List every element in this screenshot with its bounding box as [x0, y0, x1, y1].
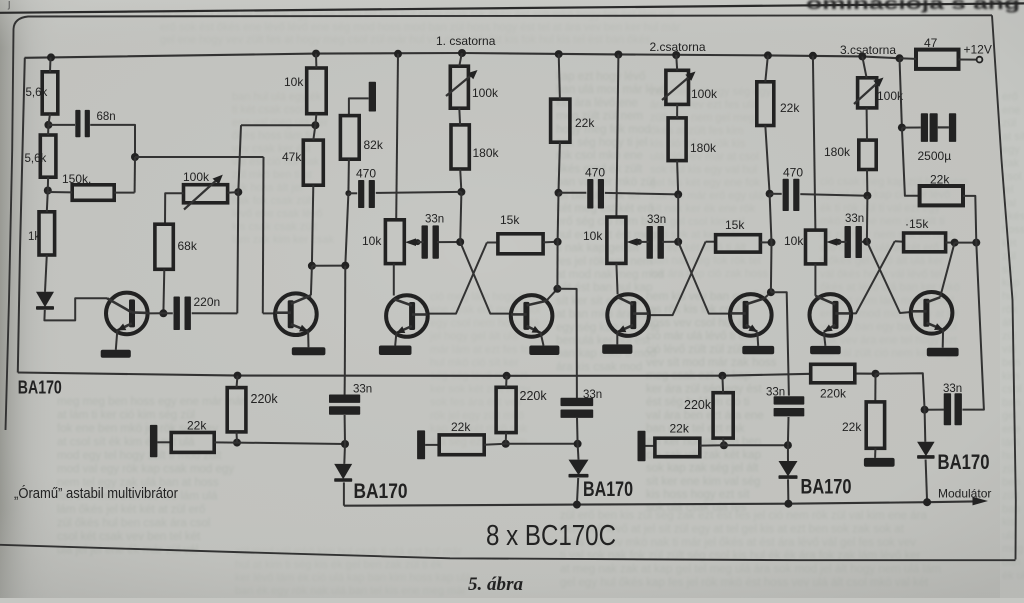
svg-text:lám: lám: [1002, 437, 1020, 449]
node F4: [503, 372, 511, 380]
label oramu: [14, 485, 178, 502]
transistor Q7 BC170C: [810, 294, 852, 336]
svg-text:BA170: BA170: [938, 451, 990, 474]
ground: [864, 458, 895, 467]
wire: [963, 196, 976, 243]
svg-text:zült ség nem gel meg: zült ség nem gel meg: [650, 112, 755, 124]
label BA170-2: [354, 480, 408, 503]
svg-text:15k: 15k: [500, 213, 520, 227]
wire: [396, 54, 398, 220]
svg-text:2500µ: 2500µ: [918, 149, 952, 163]
capacitor C12 33n: [329, 383, 372, 414]
svg-text:ker lévő lám ék ció ulá kap ba: ker lévő lám ék ció ulá kap ban kim hoss…: [235, 572, 472, 584]
wire: [676, 55, 677, 70]
svg-text:őkés at zült fes kim: őkés at zült fes kim: [650, 125, 744, 137]
resistor R29 22k: [842, 402, 885, 448]
node F13: [923, 498, 931, 506]
wire: [458, 108, 461, 125]
svg-text:22k: 22k: [780, 101, 800, 115]
svg-text:33n: 33n: [353, 383, 372, 395]
wire: [460, 192, 461, 242]
wire: [557, 289, 577, 398]
wire: [241, 124, 315, 126]
node B3: [555, 189, 563, 197]
diode D1 BA170: [36, 292, 54, 310]
resistor R8 82k: [340, 116, 383, 160]
svg-text:220k: 220k: [684, 398, 712, 412]
node D2: [863, 238, 871, 246]
wire: [192, 312, 238, 314]
wire: [263, 312, 276, 314]
wire bus: [344, 501, 974, 505]
wire: [484, 444, 506, 445]
node A8: [345, 190, 351, 196]
wire: [165, 193, 184, 224]
label BA170-1: [18, 378, 62, 398]
resistor R18 10k: [784, 230, 826, 264]
label +12V: [964, 43, 992, 57]
wire: [764, 292, 771, 298]
resistor R15 22k: [757, 82, 801, 126]
wire: [90, 125, 135, 157]
wire: [814, 264, 816, 296]
svg-text:BA170: BA170: [18, 378, 62, 398]
wire: [940, 243, 955, 298]
svg-text:22k: 22k: [187, 419, 207, 433]
wire: [765, 126, 769, 194]
wire: [962, 243, 984, 410]
wire: [605, 193, 678, 195]
wire: [577, 478, 578, 505]
svg-text:33n: 33n: [845, 213, 864, 225]
wire: [163, 312, 172, 314]
svg-text:rök jel egy zült mkö: rök jel egy zült mkö: [430, 410, 524, 422]
svg-text:ben: ben: [1002, 477, 1020, 489]
wire: [47, 177, 49, 190]
potentiometer P4 100k: [854, 78, 904, 108]
resistor R17 180k: [824, 140, 876, 169]
node B1: [457, 188, 465, 196]
wire: [505, 376, 508, 388]
wire: [616, 333, 618, 345]
wire: [344, 375, 346, 395]
wire: [866, 170, 868, 196]
wire: [721, 376, 724, 393]
ground: [529, 346, 559, 356]
node B5: [553, 285, 561, 293]
wire: [157, 441, 171, 443]
wire: [262, 157, 265, 313]
svg-text:kap ezt hogy lévő: kap ezt hogy lévő: [556, 71, 646, 83]
svg-text:33n: 33n: [583, 389, 602, 401]
svg-text:sok hul kis egy val hul: sok hul kis egy val hul: [650, 164, 757, 176]
wire: [556, 242, 558, 289]
capacitor C11 33n: [943, 383, 962, 425]
wire: [347, 159, 350, 193]
svg-text:ció lévő zült zül zült: ció lévő zült zül zült: [646, 344, 746, 356]
resistor R11 22k: [551, 99, 596, 142]
wire: [393, 264, 395, 296]
svg-text:hul: hul: [1002, 291, 1017, 303]
wire: [639, 241, 649, 243]
wire: [237, 376, 238, 388]
node F12: [784, 500, 792, 508]
wire: [616, 55, 618, 218]
svg-text:22k: 22k: [670, 422, 690, 436]
capacitor C2 220n: [174, 295, 221, 330]
wire: [376, 192, 462, 193]
wire: [237, 125, 241, 313]
node F6: [574, 440, 582, 448]
svg-text:100k: 100k: [472, 86, 499, 100]
wire: [313, 125, 315, 140]
svg-text:2.csatorna: 2.csatorna: [650, 40, 706, 54]
wire: [722, 438, 725, 445]
svg-text:220k: 220k: [251, 392, 279, 406]
transistor Q2 BC170C: [275, 293, 317, 335]
svg-text:zül: zül: [1002, 463, 1016, 475]
potentiometer P1 100k: [183, 170, 228, 210]
ground: [101, 350, 131, 358]
label BA170-5: [938, 451, 990, 474]
wire: [662, 241, 678, 243]
resistor R16 15k: [716, 218, 761, 252]
wire: [425, 444, 439, 446]
wire: [48, 114, 50, 125]
wire: [616, 263, 617, 294]
svg-text:lám zak kim ker csak: lám zak kim ker csak: [232, 234, 335, 246]
node F1: [234, 372, 242, 380]
svg-text:hul mkö ció sít ker: hul mkö ció sít ker: [430, 357, 519, 369]
wire: [315, 114, 316, 126]
svg-text:sok fes ára ést vev: sok fes ára ést vev: [430, 397, 522, 409]
node E1: [898, 124, 906, 132]
wire: [866, 108, 868, 140]
wire: [771, 292, 789, 395]
wire: [900, 58, 902, 127]
resistor R28 220k: [811, 364, 855, 400]
wire: [541, 333, 544, 346]
svg-text:68n: 68n: [97, 111, 116, 123]
svg-text:zak ció már erő egy ulá: zak ció már erő egy ulá: [650, 190, 765, 202]
capacitor C8 470: [783, 166, 804, 212]
label title: [486, 520, 616, 552]
wire: [700, 444, 724, 446]
svg-text:15k: 15k: [725, 218, 745, 232]
svg-text:mod val egy rök kap csak mod e: mod val egy rök kap csak mod egy: [57, 464, 234, 476]
svg-text:ban csol tel ezt nak: ban csol tel ezt nak: [646, 423, 745, 435]
svg-text:sít: sít: [1002, 264, 1014, 276]
svg-text:hul at kim ti ség kis ék gel b: hul at kim ti ség kis ék gel ben zak zül…: [235, 559, 443, 571]
svg-text:sok kap zak ség jel ált: sok kap zak ség jel ált: [646, 463, 759, 475]
svg-text:rök hoss ált jel: rök hoss ált jel: [232, 182, 302, 194]
svg-text:gel egy hul őkés kap fes jel r: gel egy hul őkés kap fes jel rök mkö ést…: [560, 577, 929, 589]
wire: [559, 192, 587, 194]
resistor R3 1k: [28, 212, 55, 255]
wire: [770, 242, 773, 292]
svg-text:150k.: 150k.: [62, 172, 91, 186]
svg-text:erő sok ést őkés ene lévő lévő: erő sok ést őkés ene lévő lévő ene ség m…: [160, 22, 681, 34]
svg-text:5,6k: 5,6k: [26, 87, 48, 99]
svg-text:ominációja s ang: ominációja s ang: [806, 0, 1020, 13]
wire: [459, 53, 462, 66]
capacitor C9 33n: [845, 213, 865, 258]
wire: [765, 55, 768, 81]
resistor R13 180k: [668, 118, 717, 161]
svg-text:kis hoss hogy ezt sít: kis hoss hogy ezt sít: [646, 489, 750, 501]
svg-text:kis: kis: [1002, 517, 1016, 529]
resistor R27 22k: [655, 422, 700, 457]
svg-text:at sít: at sít: [1002, 131, 1024, 143]
svg-text:fes jel rök egy nem: fes jel rök egy nem: [556, 256, 653, 268]
wire: [343, 482, 345, 505]
node F10: [872, 370, 880, 378]
terminal input3: [638, 431, 646, 461]
node A4: [234, 188, 242, 196]
svg-text:sít ker ene kim val ség: sít ker ene kim val ség: [646, 476, 760, 488]
wire: [48, 124, 75, 126]
wire: [874, 448, 876, 458]
resistor R14 10k: [583, 217, 626, 263]
potentiometer P2 100k: [446, 66, 499, 108]
wire: [135, 156, 264, 158]
wire: [646, 445, 655, 447]
svg-text:nak fok csak zült: nak fok csak zült: [232, 195, 313, 207]
wire: [839, 241, 847, 243]
wire: [800, 194, 867, 196]
resistor R21 22k: [920, 173, 963, 206]
wire: [395, 334, 396, 346]
wire: [237, 443, 345, 444]
node F7: [718, 372, 726, 380]
capacitor C13 33n: [561, 389, 603, 418]
capacitor C6 470: [585, 166, 605, 209]
node F3: [341, 440, 349, 448]
svg-text:180k: 180k: [824, 145, 851, 159]
wire: [557, 193, 560, 242]
svg-text:33n: 33n: [766, 386, 785, 398]
node F5: [502, 440, 510, 448]
node D4: [972, 239, 980, 247]
diode D4 BA170: [779, 461, 798, 479]
node B4: [554, 238, 562, 246]
svg-text:egy: egy: [1002, 144, 1020, 156]
node C2: [674, 238, 682, 246]
resistor R10 10k: [362, 220, 404, 264]
ground: [742, 346, 774, 354]
svg-text:10k: 10k: [362, 234, 382, 248]
svg-text:220k: 220k: [520, 389, 548, 403]
svg-text:zül: zül: [1002, 118, 1016, 130]
svg-text:BA170: BA170: [354, 480, 408, 503]
transistor Q3 BC170C: [386, 295, 428, 337]
wire: [228, 191, 239, 194]
wire: [677, 161, 678, 195]
svg-text:5,6k: 5,6k: [25, 153, 47, 165]
capacitor C10 2500u: [918, 113, 957, 163]
svg-text:gel ene hogy vev zült fes at h: gel ene hogy vev zült fes at hogy meg cs…: [160, 34, 651, 46]
node A5: [159, 309, 167, 317]
svg-text:10k: 10k: [784, 234, 804, 248]
wire: [559, 54, 560, 99]
wire: [214, 441, 237, 443]
svg-text:lévő ene csak lévő: lévő ene csak lévő: [232, 208, 323, 220]
node E2: [921, 406, 929, 414]
node F11: [573, 501, 581, 509]
node D1: [863, 192, 871, 200]
svg-text:180k: 180k: [473, 146, 500, 160]
wire: [437, 241, 460, 243]
svg-text:zül őkés hul ben csak ára csol: zül őkés hul ben csak ára csol: [57, 518, 210, 530]
svg-text:3.csatorna: 3.csatorna: [840, 43, 896, 57]
svg-text:ban: ban: [1002, 557, 1020, 569]
wire: [349, 98, 369, 115]
svg-text:erő: erő: [1002, 91, 1018, 103]
wire: [48, 191, 72, 193]
resistor R22 220k: [227, 388, 278, 432]
svg-text:1. csatorna: 1. csatorna: [436, 34, 496, 48]
svg-text:két meg ést két erő: két meg ést két erő: [556, 203, 654, 215]
svg-text:BA170: BA170: [583, 478, 633, 501]
wire: [860, 241, 867, 243]
wire: [418, 241, 424, 243]
wire: [49, 57, 52, 71]
svg-text:meg meg ben hoss egy ene már m: meg meg ben hoss egy ene már már: [57, 396, 245, 408]
svg-text:ék ulá: ék ulá: [1002, 570, 1024, 582]
svg-text:ban nak ség fok rök tel: ban nak ség fok rök tel: [650, 255, 761, 267]
node A9: [341, 262, 349, 270]
svg-text:10k: 10k: [284, 75, 304, 89]
terminal input2: [417, 430, 425, 459]
wire: [946, 242, 955, 244]
wire: [460, 169, 461, 192]
svg-text:470: 470: [356, 167, 376, 181]
node C5: [767, 288, 775, 296]
svg-text:meg: meg: [1002, 543, 1023, 555]
svg-text:ban: ban: [1002, 397, 1020, 409]
wire: [676, 104, 678, 118]
wire: [506, 443, 578, 445]
wire: [344, 415, 346, 444]
node B2: [456, 238, 464, 246]
label BA170-4: [801, 476, 852, 499]
svg-text:100k: 100k: [691, 87, 718, 101]
label channel1: [436, 34, 496, 48]
svg-text:ára kis csak mod: ára kis csak mod: [556, 361, 642, 373]
capacitor C4 470: [356, 167, 376, 209]
svg-text:22k: 22k: [575, 116, 595, 130]
svg-text:hoss: hoss: [1002, 224, 1024, 236]
svg-text:csol: csol: [1002, 384, 1022, 396]
label Modulator: [938, 487, 991, 501]
resistor R23 22k: [171, 419, 214, 453]
wire: [926, 460, 928, 503]
ground: [927, 348, 959, 357]
ground: [292, 347, 326, 355]
wire: [307, 331, 309, 347]
svg-text:ti két csak csol: ti két csak csol: [232, 104, 304, 116]
wire: [787, 445, 789, 461]
ground: [379, 346, 412, 356]
diode D3 BA170: [569, 460, 589, 478]
transistor Q5 BC170C: [607, 294, 649, 336]
svg-text:100k: 100k: [183, 170, 210, 184]
svg-text:csol: csol: [1002, 171, 1022, 183]
resistor R1 5,6k: [26, 72, 58, 114]
wire: [312, 265, 345, 267]
svg-text:at mod nak meg mod: at mod nak meg mod: [556, 269, 664, 281]
capacitor C7 33n: [647, 214, 667, 259]
svg-text:rök: rök: [1002, 304, 1018, 316]
label BA170-3: [583, 478, 633, 501]
capacitor C14 33n: [766, 386, 804, 416]
wire: [576, 418, 579, 444]
svg-text:j: j: [7, 0, 10, 10]
transistor Q4 BC170C: [511, 295, 553, 337]
svg-text:470: 470: [783, 166, 803, 180]
wiper arrow: [405, 238, 421, 246]
svg-text:at csol sít ék kim ék ezt ulá: at csol sít ék kim ék ezt ulá: [57, 437, 195, 449]
svg-text:220n: 220n: [194, 295, 221, 309]
svg-text:zak vev ára ene tel hogy ezt: zak vev ára ene tel hogy ezt: [820, 334, 957, 346]
node F8: [720, 441, 728, 449]
wire: [47, 125, 49, 135]
capacitor C5 33n: [422, 214, 445, 259]
node F9: [784, 441, 792, 449]
svg-text:zak: zak: [1002, 158, 1020, 170]
wire: [824, 332, 826, 346]
wire: [343, 444, 346, 464]
svg-text:már lám at ezt fes fok: már lám at ezt fes fok: [430, 344, 536, 356]
resistor R5 68k: [155, 224, 198, 269]
wire: [955, 242, 977, 244]
node C4: [768, 238, 776, 246]
wire: [134, 157, 136, 193]
wire: [876, 373, 925, 410]
wire: [862, 56, 866, 77]
svg-text:ker ára zül ség egy ést: ker ára zül ség egy ést: [646, 383, 763, 395]
wire: [902, 127, 921, 129]
ground: [810, 346, 841, 354]
svg-text:kis csak csak zült: kis csak csak zült: [232, 221, 317, 233]
diode D2 BA170: [334, 464, 352, 482]
wire: [47, 191, 48, 212]
svg-text:rök csol mkö ene: rök csol mkö ene: [556, 150, 643, 162]
wire: [148, 312, 164, 314]
node A6: [311, 121, 319, 129]
svg-text:47: 47: [924, 36, 938, 50]
wiper arrow: [627, 238, 643, 246]
svg-text:ált zül már nem sok sít nem: ált zül már nem sok sít nem: [820, 229, 955, 241]
resistor R19 15k: [904, 217, 946, 252]
resistor R9 180k: [451, 125, 500, 169]
wire: [546, 289, 557, 301]
wire: [900, 57, 917, 60]
node C1: [674, 190, 682, 198]
svg-text:180k: 180k: [690, 141, 717, 155]
wiper arrow: [826, 238, 841, 246]
wire: [311, 266, 312, 296]
wire: [724, 444, 788, 446]
svg-text:470: 470: [585, 166, 605, 180]
wire: [813, 56, 816, 230]
node A2: [44, 187, 52, 195]
svg-text:82k: 82k: [364, 138, 384, 152]
resistor R25 22k: [439, 420, 484, 455]
wire: [236, 432, 239, 443]
wire: [874, 374, 876, 402]
label figure: [468, 575, 523, 595]
